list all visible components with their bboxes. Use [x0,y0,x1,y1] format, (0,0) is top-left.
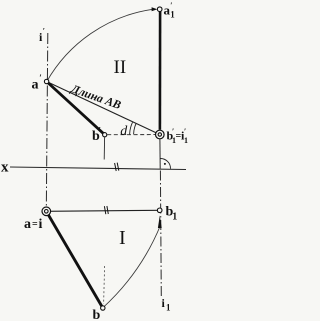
point a = i (double circle) [42,207,51,216]
svg-text:1: 1 [170,10,175,20]
segment a b1 (rotated horizontal projection) [46,210,159,211]
svg-text:a: a [32,78,39,93]
svg-text:i: i [39,217,43,232]
dashed line b' to b'1 [107,134,155,136]
point a' [44,79,48,83]
angle alpha double arc at b'1 [134,124,137,135]
point b'1 = i'1 (double circle) [156,130,165,139]
segment ab (horizontal projection, thick) [46,211,103,308]
connection line b'1 down to axis [159,139,161,169]
svg-text:1: 1 [184,136,188,145]
equal tick marks on a b1 [104,206,105,214]
point b [101,306,105,310]
segment a'1 b'1 (rotated frontal projection, thick vertical) [159,11,162,130]
svg-text:′: ′ [184,127,186,136]
segment a'b' (frontal projection, thick) [47,82,105,135]
svg-text:′: ′ [99,126,102,136]
axis i1 (dash-dot below x axis at right) [159,171,162,299]
svg-text:b: b [93,308,101,321]
axis x [10,167,186,170]
svg-text:′: ′ [172,127,174,136]
arrowhead of arc at b1 [158,215,162,228]
svg-text:II: II [114,57,127,78]
svg-text:′: ′ [39,73,42,83]
svg-text:I: I [119,227,126,249]
point b1 [157,208,162,213]
svg-text:a: a [24,217,31,232]
point b' [103,133,107,137]
svg-text:x: x [1,160,9,176]
axis i (vertical dash-dot through a' and a) [46,33,48,211]
line true length a' to b'1 (Dlina AB) [47,82,160,135]
projection line from b' down to axis [103,137,105,159]
point a'1 [157,7,162,12]
arrowhead of arc at a'1 [152,7,158,11]
svg-text:=: = [32,219,38,230]
svg-text:1: 1 [172,212,177,223]
rotation arc from b to b1 [103,225,161,308]
svg-text:d: d [120,124,128,139]
equal tick marks on axis x [115,163,117,171]
rotation arc from a' to a'1 [47,9,152,81]
svg-text:′: ′ [43,27,45,36]
svg-text:1: 1 [166,303,171,313]
right angle mark at axis [160,158,170,168]
dashed projection line above b [104,266,105,304]
